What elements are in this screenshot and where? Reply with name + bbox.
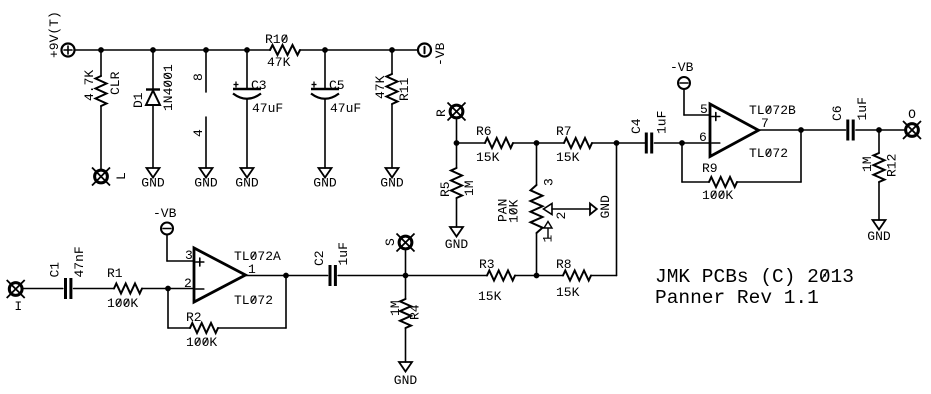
junction (679, 140, 685, 146)
resistor CLR 4.7K (96, 76, 107, 106)
wire (683, 89, 685, 115)
terminal -VB (418, 44, 431, 57)
resistor R9 (709, 177, 737, 187)
label -VB (433, 42, 448, 66)
wire (75, 49, 271, 51)
svg-text:D1: D1 (131, 92, 146, 108)
label C2 (312, 250, 327, 266)
label R4 (408, 304, 423, 320)
label R12 (885, 154, 900, 177)
label C6 (830, 105, 845, 121)
resistor R8 (563, 271, 591, 281)
svg-text:5: 5 (700, 102, 708, 117)
wire (800, 130, 802, 182)
svg-text:GND: GND (235, 176, 259, 191)
label 47uF (330, 101, 361, 116)
label CLR (108, 71, 123, 95)
diode D1 (146, 90, 160, 106)
wire pin8 (205, 50, 207, 92)
capacitor C4 (646, 133, 651, 154)
svg-text:C2: C2 (312, 250, 327, 266)
svg-text:R12: R12 (885, 154, 900, 177)
svg-text:-VB: -VB (670, 60, 694, 75)
label pin 1 (541, 235, 556, 243)
wire (285, 276, 287, 329)
svg-text:GND: GND (394, 373, 418, 388)
resistor R1 (114, 284, 142, 294)
label pin 2 (184, 276, 192, 291)
wire (878, 182, 880, 220)
label -VB (670, 60, 694, 75)
label 47K (373, 75, 388, 99)
opamp - mark (196, 288, 204, 290)
svg-text:1N4001: 1N4001 (161, 64, 176, 111)
junction (322, 47, 328, 53)
wire (536, 143, 538, 185)
junction (203, 47, 209, 53)
wire (167, 260, 194, 262)
wire (456, 119, 458, 144)
svg-text:R10: R10 (265, 32, 288, 47)
label -VB (153, 206, 177, 221)
label R3 (479, 257, 495, 272)
svg-text:15K: 15K (476, 150, 500, 165)
label 1M (388, 300, 403, 316)
label D1 (131, 92, 146, 108)
ground (380, 168, 404, 191)
wire (405, 328, 407, 362)
label pin 3 (542, 178, 557, 186)
svg-text:1M: 1M (462, 180, 477, 196)
svg-text:+9V(T): +9V(T) (47, 11, 62, 58)
wire (166, 235, 168, 262)
wire (74, 288, 114, 290)
node O pad (903, 121, 921, 139)
wire (591, 275, 617, 277)
label 1uF (336, 242, 351, 265)
ground (445, 227, 469, 252)
label 1M (462, 180, 477, 196)
svg-text:CLR: CLR (108, 71, 123, 95)
svg-text:R9: R9 (702, 161, 718, 176)
junction (534, 273, 540, 279)
ground (235, 168, 259, 191)
wire (456, 198, 458, 227)
label pin 5 (700, 102, 708, 117)
ground rotated (590, 195, 613, 219)
svg-text:100K: 100K (702, 188, 733, 203)
svg-text:47uF: 47uF (330, 101, 361, 116)
svg-text:R6: R6 (476, 124, 492, 139)
wire (878, 130, 880, 153)
resistor R5 (451, 168, 462, 198)
wire (405, 276, 407, 300)
junction (165, 286, 171, 292)
resistor R10 (270, 45, 300, 55)
node L pad (92, 168, 110, 186)
resistor R3 (487, 271, 515, 281)
junction (614, 140, 620, 146)
svg-text:47K: 47K (373, 75, 388, 99)
svg-text:15K: 15K (478, 289, 502, 304)
wire (759, 129, 846, 131)
label S (383, 238, 398, 246)
label R11 (397, 77, 412, 101)
svg-text:GND: GND (141, 176, 165, 191)
wire (391, 50, 393, 74)
opamp + mark (712, 113, 720, 121)
wire pin4 (205, 117, 207, 168)
label R8 (556, 257, 572, 272)
label 1uF (855, 97, 870, 120)
junction (150, 47, 156, 53)
svg-text:GND: GND (598, 195, 613, 219)
svg-text:JMK PCBs (C) 2013: JMK PCBs (C) 2013 (655, 266, 854, 288)
label 100K (107, 296, 138, 311)
junction (389, 47, 395, 53)
resistor R12 (874, 153, 885, 182)
wire (300, 49, 418, 51)
label +9V(T) (47, 11, 62, 58)
wire (246, 275, 328, 277)
wire (654, 142, 710, 144)
label 100K (186, 335, 217, 350)
svg-text:6: 6 (699, 130, 707, 145)
svg-text:C4: C4 (629, 118, 644, 134)
label R1 (107, 266, 123, 281)
label R9 (702, 161, 718, 176)
ground (194, 168, 218, 191)
potentiometer PAN 10K (531, 185, 543, 233)
svg-text:7: 7 (761, 116, 769, 131)
svg-text:4.7K: 4.7K (82, 70, 97, 101)
label R6 (476, 124, 492, 139)
label 47nF (72, 246, 87, 277)
svg-text:GND: GND (867, 229, 891, 244)
svg-text:47K: 47K (267, 55, 291, 70)
wire (856, 129, 906, 131)
svg-text:1uF: 1uF (336, 242, 351, 265)
svg-text:1M: 1M (860, 156, 875, 172)
label R7 (556, 124, 572, 139)
label C1 (48, 262, 63, 278)
wire (246, 50, 248, 89)
capacitor C2 (330, 265, 335, 286)
label C5 (329, 78, 345, 93)
ground (141, 168, 165, 191)
svg-text:R11: R11 (397, 77, 412, 101)
title text 2 (655, 287, 819, 309)
label pin 2 (554, 212, 569, 220)
label pin 4 (191, 129, 206, 137)
wire (515, 275, 563, 277)
wire (100, 50, 102, 76)
capacitor C1 (66, 278, 71, 299)
svg-text:R: R (434, 109, 449, 117)
wire (152, 105, 154, 168)
svg-text:R3: R3 (479, 257, 495, 272)
label TL072 (234, 293, 273, 308)
svg-text:L: L (114, 172, 129, 180)
svg-text:15K: 15K (556, 285, 580, 300)
label pin 1 (248, 262, 256, 277)
svg-text:GND: GND (313, 176, 337, 191)
label 47uF (252, 101, 283, 116)
label 15K (476, 150, 500, 165)
label pin 6 (699, 130, 707, 145)
resistor R6 (485, 138, 513, 148)
capacitor C3 (233, 82, 261, 99)
wire (405, 250, 407, 276)
wire (456, 143, 458, 168)
svg-text:C5: C5 (329, 78, 345, 93)
label 4.7K (82, 70, 97, 101)
wire (152, 50, 154, 90)
label R5 (438, 181, 453, 197)
svg-text:TL072A: TL072A (234, 249, 281, 264)
svg-text:GND: GND (445, 237, 469, 252)
wire (681, 143, 683, 182)
svg-text:R7: R7 (556, 124, 572, 139)
wire (22, 288, 63, 290)
label 1N4001 (161, 64, 176, 111)
svg-text:C1: C1 (48, 262, 63, 278)
resistor R4 (400, 299, 411, 328)
label 100K (702, 188, 733, 203)
label pin 3 (185, 248, 193, 263)
junction (534, 140, 540, 146)
label PAN (496, 199, 511, 222)
label TL072B (749, 103, 796, 118)
junction (403, 273, 409, 279)
node I pad (7, 280, 25, 298)
label I (14, 299, 22, 314)
label TL072 (749, 146, 788, 161)
opamp - mark (712, 142, 720, 144)
svg-text:TL072B: TL072B (749, 103, 796, 118)
wire (324, 50, 326, 89)
label 47K (267, 55, 291, 70)
resistor R7 (564, 138, 592, 148)
svg-text:100K: 100K (186, 335, 217, 350)
label TL072A (234, 249, 281, 264)
label pin 8 (191, 73, 206, 81)
svg-text:S: S (383, 238, 398, 246)
wire (246, 99, 248, 168)
svg-text:TL072: TL072 (234, 293, 273, 308)
ground (867, 220, 891, 244)
svg-text:GND: GND (380, 176, 404, 191)
svg-text:1: 1 (541, 235, 556, 243)
svg-text:100K: 100K (107, 296, 138, 311)
svg-text:10K: 10K (507, 199, 522, 223)
svg-text:C3: C3 (251, 78, 267, 93)
svg-text:R5: R5 (438, 181, 453, 197)
wire (536, 233, 538, 276)
label L (114, 172, 129, 180)
wire (218, 327, 286, 329)
svg-text:47nF: 47nF (72, 246, 87, 277)
svg-text:GND: GND (194, 176, 218, 191)
label R2 (186, 310, 202, 325)
wire (168, 327, 190, 329)
terminal -VB A (161, 223, 173, 235)
junction (454, 140, 460, 146)
label 15K (556, 285, 580, 300)
svg-text:R4: R4 (408, 304, 423, 320)
label 10K (507, 199, 522, 223)
ground (394, 362, 418, 388)
label R (434, 109, 449, 117)
junction (98, 47, 104, 53)
title text (655, 266, 854, 288)
resistor R11 (387, 74, 398, 104)
pot wiper (544, 204, 591, 215)
wire (142, 288, 194, 290)
wire (391, 104, 393, 168)
pot arrow (544, 222, 552, 239)
wire (684, 114, 710, 116)
svg-text:1uF: 1uF (655, 111, 670, 134)
svg-text:1M: 1M (388, 300, 403, 316)
label C4 (629, 118, 644, 134)
junction (876, 127, 882, 133)
terminal -VB B (678, 77, 690, 89)
svg-text:-VB: -VB (433, 42, 448, 66)
opamp + mark (196, 258, 204, 266)
label R10 (265, 32, 288, 47)
junction (244, 47, 250, 53)
label O (908, 107, 916, 122)
svg-text:3: 3 (185, 248, 193, 263)
wire (513, 142, 564, 144)
wire (167, 289, 169, 329)
op-amp U1B TL072B (710, 104, 759, 157)
svg-text:C6: C6 (830, 105, 845, 121)
wire (100, 106, 102, 170)
ground (313, 168, 337, 191)
capacitor C5 (311, 82, 339, 99)
svg-text:2: 2 (554, 212, 569, 220)
svg-text:-VB: -VB (153, 206, 177, 221)
label 15K (478, 289, 502, 304)
label 1M (860, 156, 875, 172)
svg-text:R8: R8 (556, 257, 572, 272)
label 15K (556, 150, 580, 165)
svg-text:47uF: 47uF (252, 101, 283, 116)
capacitor C6 (848, 120, 853, 141)
junction (283, 273, 289, 279)
svg-text:R2: R2 (186, 310, 202, 325)
svg-text:4: 4 (191, 129, 206, 137)
svg-text:3: 3 (542, 178, 557, 186)
svg-text:8: 8 (191, 73, 206, 81)
svg-text:15K: 15K (556, 150, 580, 165)
wire (592, 142, 645, 144)
node S pad (397, 234, 415, 252)
svg-text:2: 2 (184, 276, 192, 291)
wire (324, 99, 326, 168)
label C3 (251, 78, 267, 93)
label 1uF (655, 111, 670, 134)
svg-text:I: I (14, 299, 22, 314)
wire (457, 142, 486, 144)
op-amp U1A TL072A (194, 248, 246, 302)
label pin 7 (761, 116, 769, 131)
svg-text:TL072: TL072 (749, 146, 788, 161)
svg-text:Panner Rev 1.1: Panner Rev 1.1 (655, 287, 819, 309)
junction (798, 127, 804, 133)
wire (338, 275, 487, 277)
wire (737, 181, 801, 183)
svg-text:1uF: 1uF (855, 97, 870, 120)
wire (682, 181, 709, 183)
svg-text:O: O (908, 107, 916, 122)
resistor R2 (190, 323, 218, 333)
svg-text:R1: R1 (107, 266, 123, 281)
wire riser (616, 143, 618, 276)
terminal +9V (62, 44, 75, 57)
node R pad (448, 103, 466, 121)
